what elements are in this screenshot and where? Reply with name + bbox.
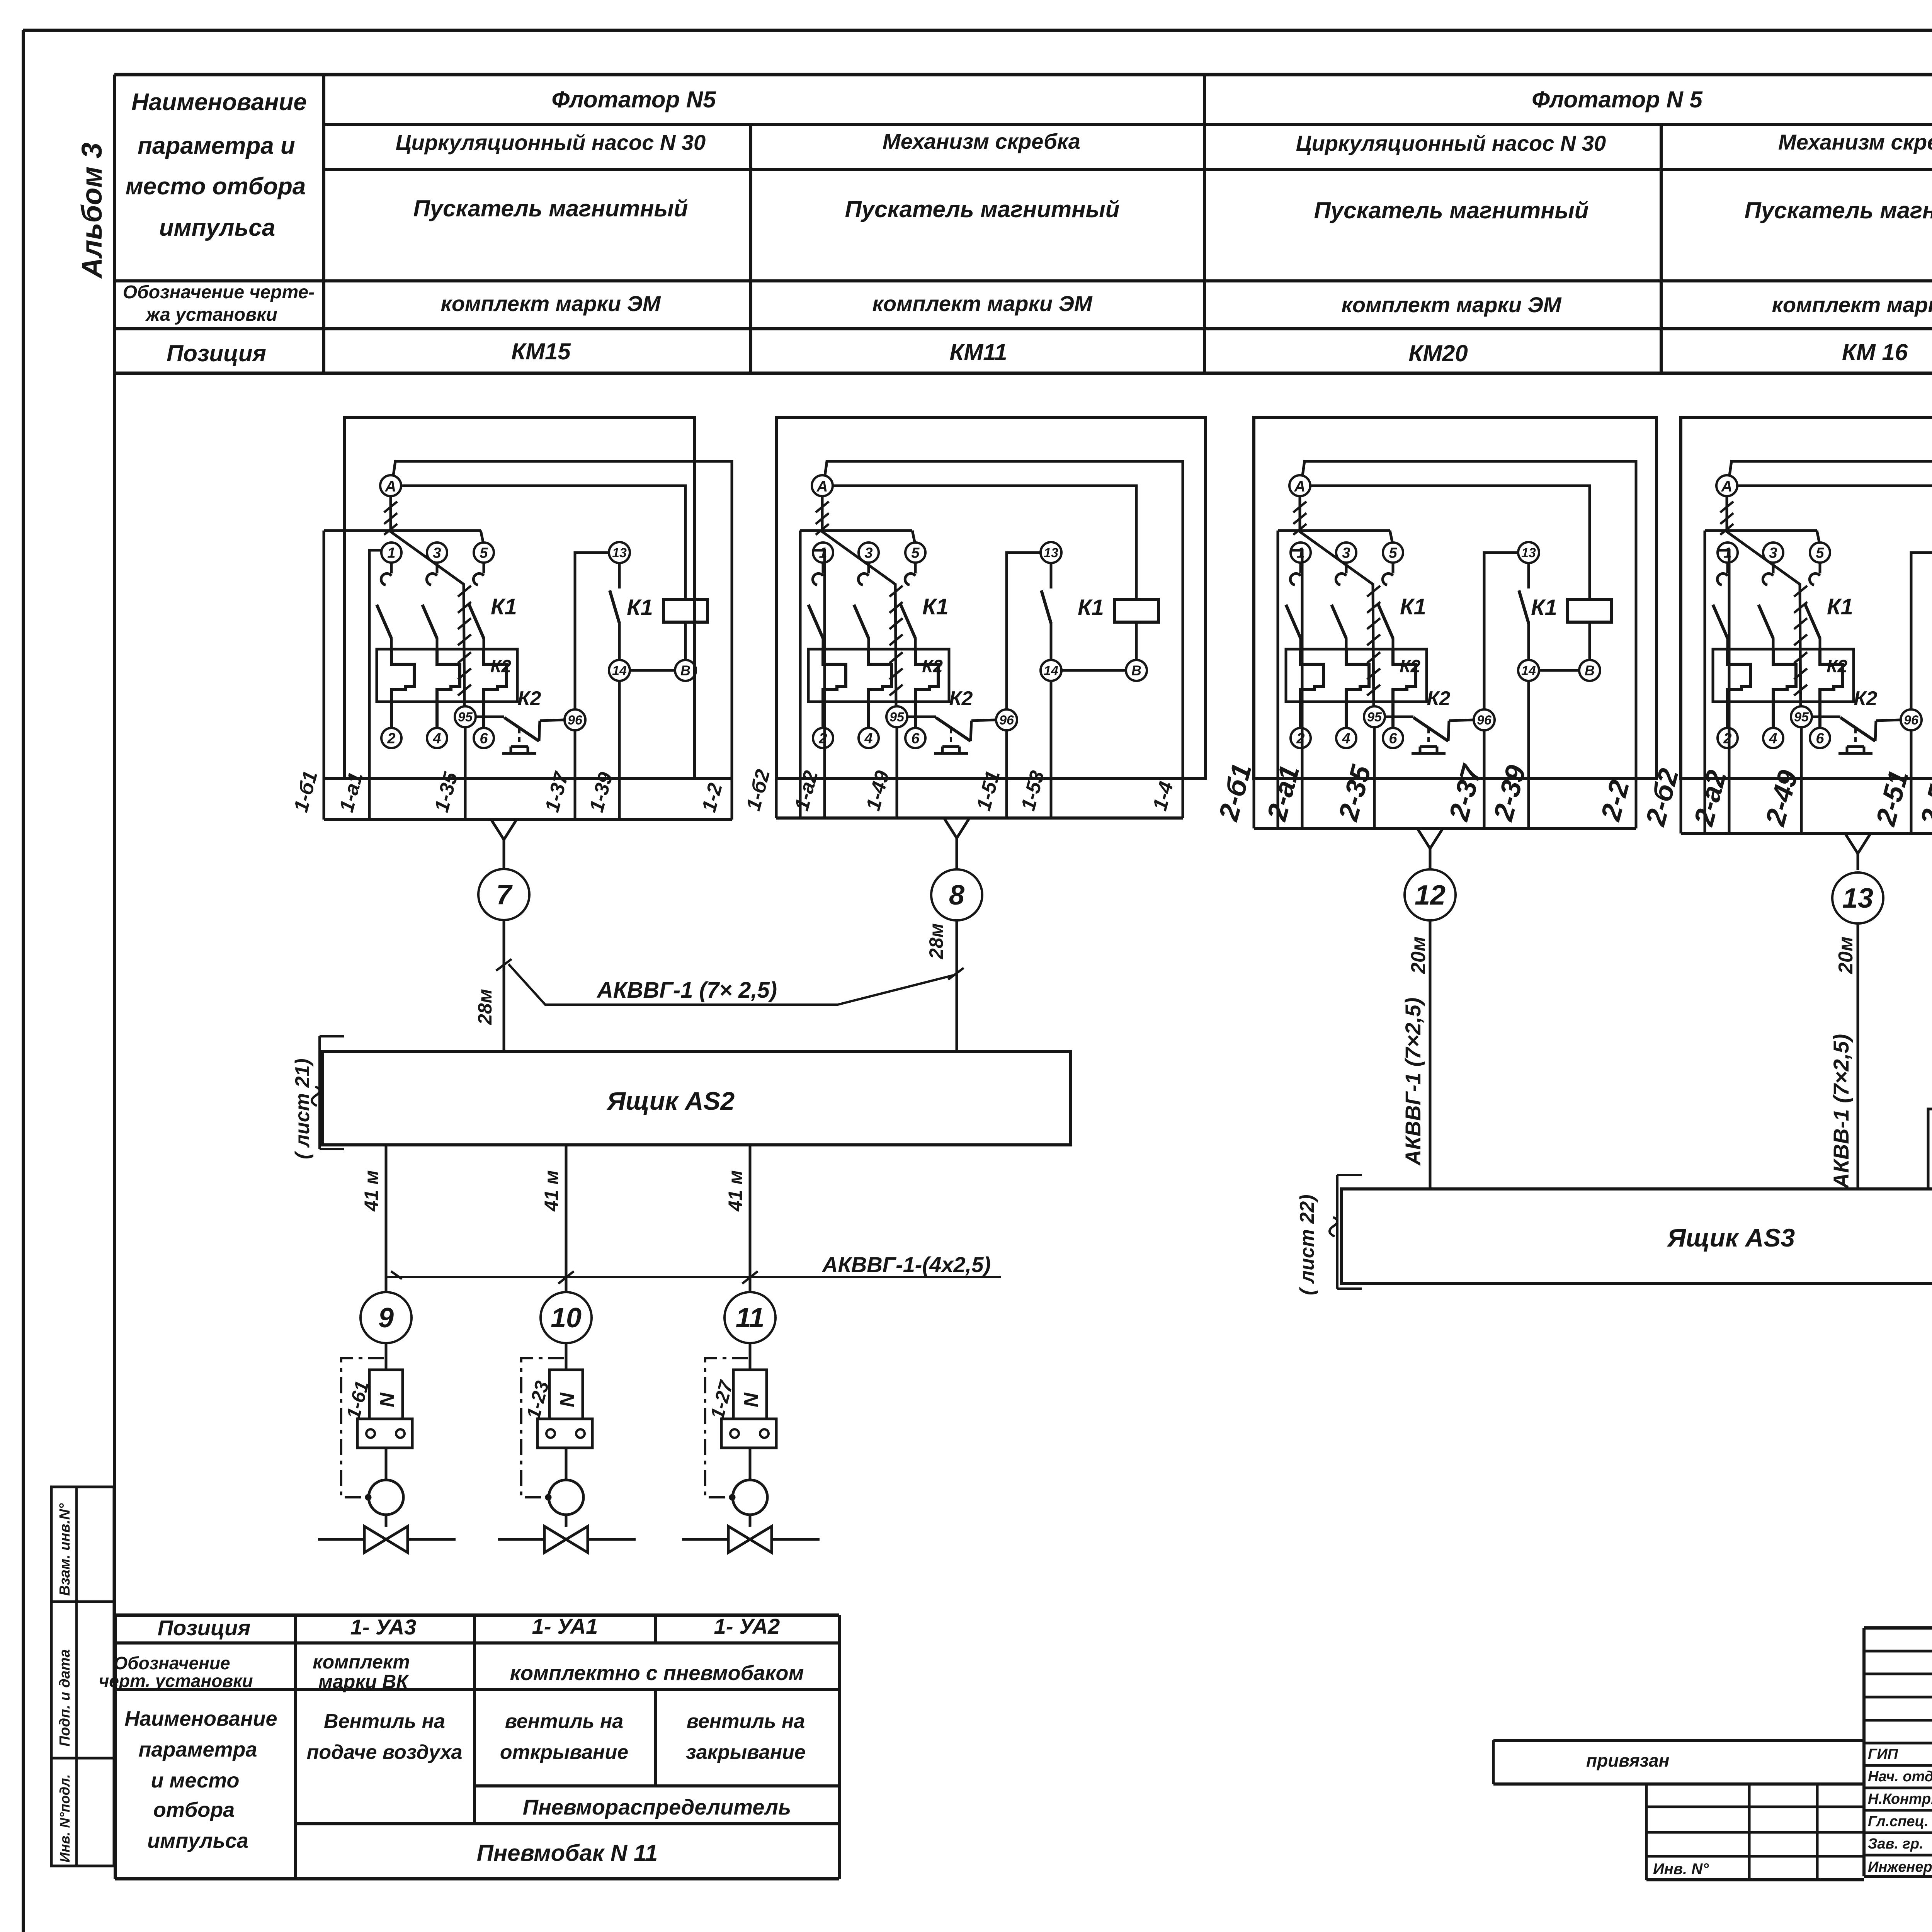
pole terminal circle 5 (1810, 543, 1830, 563)
svg-text:Пускатель магнитный: Пускатель магнитный (1314, 197, 1589, 223)
svg-text:Инв. N°: Инв. N° (1653, 1861, 1709, 1878)
title block grid (1864, 1626, 1932, 1630)
svg-text:1-б1: 1-б1 (290, 769, 322, 815)
cable circle 7 (478, 869, 529, 920)
svg-text:Гл.спец.: Гл.спец. (1868, 1813, 1929, 1830)
pole bottom terminal circle 2 (1718, 728, 1738, 748)
terminal 95 circle (886, 706, 907, 727)
strip left edge (1704, 531, 1706, 833)
pole stub and fixed contact hook (1819, 563, 1821, 573)
terminal A circle (1716, 475, 1737, 496)
wire 13 to 96 and strip (1007, 553, 1041, 709)
svg-text:95: 95 (1794, 710, 1809, 724)
svg-text:параметра и: параметра и (138, 133, 295, 159)
svg-text:4: 4 (864, 730, 872, 747)
cable circle 8 (931, 869, 982, 920)
box AS3 (1342, 1189, 1932, 1284)
valve symbol (364, 1526, 386, 1553)
terminal 96 circle (1901, 709, 1922, 730)
pole terminal circle 5 (905, 543, 925, 563)
pole stub and fixed contact hook (914, 563, 917, 573)
svg-text:1- УА2: 1- УА2 (714, 1614, 780, 1638)
K2 NC contact (476, 716, 504, 718)
terminal 14 circle (1041, 660, 1061, 681)
actuator head circle (369, 1480, 403, 1515)
svg-text:12: 12 (1415, 880, 1446, 911)
svg-text:К1: К1 (922, 594, 949, 619)
svg-text:2: 2 (818, 730, 827, 747)
pole terminal circle 1 (1718, 543, 1738, 563)
K2 NC contact (1385, 716, 1413, 718)
svg-text:подаче воздуха: подаче воздуха (307, 1741, 463, 1764)
small grid below privyazan (1646, 1806, 1864, 1808)
wire 14 to B (630, 669, 675, 672)
contactor blade K1 (1759, 605, 1773, 638)
pole bottom terminal circle 4 (427, 728, 447, 748)
terminal box (721, 1419, 776, 1448)
contactor blade K1 (901, 605, 915, 638)
svg-text:96: 96 (999, 713, 1014, 728)
strip left edge (1277, 531, 1279, 828)
terminal 13 circle (609, 542, 630, 563)
thermal relay K2 box (377, 649, 517, 702)
svg-text:1: 1 (387, 545, 395, 561)
svg-text:импульса: импульса (159, 214, 275, 241)
pole bottom terminal circle 4 (859, 728, 879, 748)
terminal B circle (675, 660, 696, 681)
wire a from terminal 1 (1291, 550, 1302, 828)
svg-text:28м: 28м (474, 989, 496, 1025)
sheet 22 reference bracket (1336, 1175, 1338, 1289)
wire coil to B (1588, 622, 1591, 660)
svg-text:5: 5 (1816, 545, 1824, 561)
thermal element (915, 649, 938, 728)
svg-text:комплектно с пневмобаком: комплектно с пневмобаком (510, 1662, 804, 1685)
svg-text:3: 3 (1342, 545, 1350, 561)
svg-text:КМ20: КМ20 (1408, 340, 1468, 366)
svg-text:Пневмобак N 11: Пневмобак N 11 (477, 1840, 658, 1866)
svg-text:АКВВ-1 (7×2,5): АКВВ-1 (7×2,5) (1829, 1034, 1853, 1189)
cable circle 13 (1832, 872, 1883, 923)
svg-text:В: В (680, 663, 690, 679)
pole terminal circle 3 (427, 543, 447, 563)
pole bottom terminal circle 4 (1763, 728, 1783, 748)
terminal 95 circle (1791, 706, 1812, 727)
starter block outer box at x=2009 (776, 417, 1206, 779)
manual reset button symbol (1854, 729, 1857, 747)
contactor blade K1 (1332, 605, 1346, 638)
wire actuator to valve (749, 1515, 752, 1527)
svg-text:5: 5 (911, 545, 920, 561)
strip top extension (324, 777, 345, 780)
pole stub and fixed contact hook (1726, 563, 1729, 573)
wire 95 to strip (896, 727, 898, 818)
svg-text:Инженер: Инженер (1868, 1859, 1932, 1875)
svg-text:параметра: параметра (138, 1738, 257, 1761)
svg-text:К2: К2 (949, 687, 973, 710)
terminal box (537, 1419, 592, 1448)
svg-text:2-49: 2-49 (1760, 767, 1804, 830)
svg-text:2-б2: 2-б2 (1640, 765, 1685, 830)
svg-text:место отбора: место отбора (126, 173, 306, 200)
supply wire from A to strip (825, 461, 1183, 818)
svg-text:отбора: отбора (153, 1798, 235, 1821)
pole terminal circle 5 (474, 543, 494, 563)
svg-text:2: 2 (1723, 730, 1731, 747)
phase bus wire (1278, 529, 1390, 532)
svg-text:41 м: 41 м (541, 1170, 562, 1212)
cable circle 10 (541, 1292, 592, 1343)
svg-text:К1: К1 (1400, 594, 1426, 619)
hatched cable from A to 95 (391, 496, 464, 706)
actuator head circle (733, 1480, 767, 1515)
aux contact 13-14 (618, 563, 621, 588)
wire 13 to 96 and strip (1911, 553, 1932, 709)
svg-text:Наименование: Наименование (124, 1707, 277, 1730)
svg-text:и место: и место (151, 1769, 240, 1792)
svg-text:5: 5 (1389, 545, 1397, 561)
contactor blade K1 (808, 605, 823, 638)
svg-text:Флотатор N 5: Флотатор N 5 (1532, 87, 1703, 112)
svg-text:Пускатель магнитный: Пускатель магнитный (413, 196, 688, 221)
pole stub and fixed contact hook (822, 563, 825, 573)
svg-text:вентиль на: вентиль на (687, 1710, 805, 1733)
dash-dot feedback line (521, 1358, 564, 1497)
thermal element (437, 649, 460, 728)
pole terminal circle 5 (1383, 543, 1403, 563)
cable converge V (944, 818, 969, 838)
thermal relay K2 box (1286, 649, 1427, 702)
svg-text:6: 6 (480, 730, 488, 747)
hatched cable from A to 95 (822, 496, 896, 706)
terminal 13 circle (1518, 542, 1539, 563)
wire 14 to B (1061, 669, 1126, 672)
terminal B circle (1579, 660, 1600, 681)
svg-text:Пускатель магнитный: Пускатель магнитный (1745, 197, 1932, 223)
svg-text:ГИП: ГИП (1868, 1746, 1898, 1762)
pole terminal circle 3 (859, 543, 879, 563)
supply wire from A to strip (393, 461, 732, 820)
svg-text:К1: К1 (1827, 594, 1853, 619)
phase bus wire (800, 529, 912, 532)
wire 14 to B (1539, 669, 1579, 672)
svg-text:Н.Контр.: Н.Контр. (1868, 1791, 1932, 1807)
svg-text:К2: К2 (1427, 687, 1451, 710)
svg-text:А: А (816, 478, 828, 495)
svg-text:закрывание: закрывание (686, 1741, 806, 1764)
svg-text:13: 13 (1521, 546, 1536, 560)
starter block outer box at x=892 (345, 417, 695, 779)
coil K1 (1568, 599, 1612, 622)
pole bottom terminal circle 6 (1383, 728, 1403, 748)
svg-text:Флотатор N5: Флотатор N5 (551, 87, 716, 112)
left margin stamp vzam (51, 1487, 114, 1602)
terminal 14 circle (1518, 660, 1539, 681)
svg-text:11: 11 (736, 1303, 765, 1333)
svg-text:96: 96 (568, 713, 583, 728)
ticks on collector (558, 1271, 574, 1284)
manual reset button symbol (950, 729, 952, 747)
pole stub and fixed contact hook (390, 563, 393, 573)
terminal 95 circle (1364, 706, 1385, 727)
thermal element (1820, 649, 1843, 728)
pole terminal circle 1 (813, 543, 833, 563)
svg-text:АКВВГ-1 (7×2,5): АКВВГ-1 (7×2,5) (1401, 998, 1425, 1166)
svg-text:2: 2 (387, 730, 395, 747)
svg-text:открывание: открывание (500, 1741, 628, 1764)
solenoid body (733, 1370, 767, 1419)
dash-dot feedback line (341, 1358, 384, 1497)
svg-text:4: 4 (1769, 730, 1777, 747)
wire to actuator head (749, 1448, 752, 1480)
svg-text:Вентиль на: Вентиль на (324, 1710, 445, 1733)
coil K1 (663, 599, 707, 622)
strip left edge (799, 531, 802, 818)
svg-text:3: 3 (864, 545, 872, 561)
svg-text:Циркуляционный насос N 30: Циркуляционный насос N 30 (396, 130, 706, 155)
drop wire from 8 to box AS2 (956, 920, 958, 1051)
pole terminal circle 3 (1763, 543, 1783, 563)
svg-text:Циркуляционный насос N 30: Циркуляционный насос N 30 (1296, 131, 1606, 155)
svg-text:Позиция: Позиция (158, 1616, 251, 1640)
svg-text:20м: 20м (1407, 937, 1430, 974)
svg-text:96: 96 (1477, 713, 1492, 728)
svg-text:2-а1: 2-а1 (1261, 762, 1306, 825)
K2 NC contact (907, 716, 936, 718)
svg-text:К2: К2 (1400, 656, 1420, 676)
coil feed wire (833, 486, 1136, 599)
aux contact 13-14 (1050, 563, 1053, 588)
privyazan row (1493, 1739, 1864, 1742)
K2 NC contact (1812, 716, 1840, 718)
wire to solenoid (565, 1343, 568, 1370)
wire 13 to 96 and strip (575, 553, 609, 709)
coil K1 (1114, 599, 1158, 622)
thermal element (823, 649, 846, 728)
hatched cable from A to 95 (1727, 496, 1801, 706)
wire 95 to strip (1373, 727, 1376, 828)
wire to actuator head (565, 1448, 568, 1480)
valve symbol (544, 1526, 566, 1553)
svg-text:2-37: 2-37 (1443, 761, 1488, 825)
svg-text:Позиция: Позиция (167, 340, 266, 366)
strip bottom line (1681, 832, 1932, 835)
svg-text:6: 6 (911, 730, 920, 747)
collector cable line below AS2 (386, 1276, 1001, 1278)
cable converge V (491, 820, 517, 840)
wire 13 to 96 and strip (1484, 553, 1518, 709)
svg-text:Альбом 3: Альбом 3 (76, 143, 108, 279)
wire a from terminal 1 (369, 550, 381, 820)
svg-text:3: 3 (1769, 545, 1777, 561)
thermal element (391, 649, 414, 728)
thermal element (869, 649, 891, 728)
svg-text:2: 2 (1296, 730, 1304, 747)
svg-text:N: N (556, 1392, 578, 1407)
svg-text:комплект: комплект (313, 1651, 410, 1673)
svg-text:КМ11: КМ11 (949, 339, 1007, 365)
svg-text:14: 14 (1521, 663, 1536, 678)
svg-text:К1: К1 (1078, 595, 1104, 620)
svg-text:95: 95 (889, 710, 905, 724)
svg-text:7: 7 (496, 879, 513, 910)
pole stub and fixed contact hook (1392, 563, 1395, 573)
cable circle 12 (1405, 869, 1456, 920)
svg-text:К2: К2 (490, 656, 511, 676)
phase bus wire (324, 529, 481, 532)
svg-text:1- УА3: 1- УА3 (350, 1615, 417, 1639)
svg-text:5: 5 (480, 545, 488, 561)
pole bottom terminal circle 6 (905, 728, 925, 748)
thermal element (1346, 649, 1369, 728)
svg-text:Взам. инв.N°: Взам. инв.N° (57, 1503, 73, 1596)
contactor blade K1 (377, 605, 391, 638)
svg-text:Ящик АS2: Ящик АS2 (606, 1087, 735, 1115)
sheet frame (23, 29, 1932, 32)
svg-text:К2: К2 (922, 656, 943, 676)
aux contact 13-14 (1527, 563, 1530, 588)
contactor blade K1 (469, 605, 484, 638)
wire a from terminal 1 (1718, 550, 1729, 833)
svg-text:КМ 16: КМ 16 (1842, 339, 1908, 365)
top table grid (114, 73, 1932, 77)
drop wire from 12 to box AS3 (1429, 920, 1432, 1189)
dash-dot feedback line (705, 1358, 748, 1497)
left content boundary line (113, 75, 116, 1615)
supply wire from A to strip (1303, 461, 1636, 828)
cable callout bracket AKVVG-1 7x2.5 (509, 964, 953, 1005)
wire 14 to strip (1050, 681, 1053, 818)
svg-text:1-б2: 1-б2 (742, 767, 775, 813)
terminal 95 circle (455, 706, 476, 727)
svg-text:марки ВК: марки ВК (318, 1671, 409, 1692)
pole bottom terminal circle 6 (1810, 728, 1830, 748)
wire actuator to valve (565, 1515, 568, 1527)
svg-text:95: 95 (458, 710, 473, 724)
svg-text:9: 9 (378, 1303, 394, 1333)
cable converge V (1417, 828, 1443, 849)
wire coil to B (1135, 622, 1138, 660)
pole stub and fixed contact hook (1299, 563, 1302, 573)
svg-text:( лист 22): ( лист 22) (1296, 1194, 1318, 1295)
svg-text:В: В (1131, 663, 1141, 679)
svg-text:А: А (1294, 478, 1306, 495)
wire to solenoid (749, 1343, 752, 1370)
svg-text:К1: К1 (627, 595, 653, 620)
svg-text:96: 96 (1904, 713, 1919, 728)
pole stub and fixed contact hook (1345, 563, 1348, 573)
pole stub and fixed contact hook (483, 563, 485, 573)
thermal relay K2 box (808, 649, 949, 702)
wire 14 to strip (618, 681, 621, 820)
cable converge V (1845, 833, 1871, 854)
terminal 96 circle (1474, 709, 1495, 730)
hatched cable from A to 95 (1300, 496, 1374, 706)
svg-text:импульса: импульса (147, 1829, 248, 1852)
left margin stamp inv (51, 1758, 114, 1866)
starter block outer box at x=4350 (1681, 417, 1932, 779)
svg-text:А: А (1721, 478, 1733, 495)
svg-text:2-б1: 2-б1 (1213, 760, 1258, 825)
wire 95 to strip (464, 727, 467, 820)
pole terminal circle 3 (1336, 543, 1356, 563)
manual reset button symbol (518, 729, 520, 747)
svg-text:1: 1 (819, 545, 827, 561)
pole stub and fixed contact hook (867, 563, 870, 573)
svg-text:1-49: 1-49 (862, 768, 894, 813)
svg-text:41 м: 41 м (724, 1170, 746, 1212)
svg-text:N: N (376, 1392, 398, 1407)
lower table grid (115, 1614, 839, 1617)
sheet 21 reference bracket (318, 1036, 321, 1149)
terminal 96 circle (565, 709, 585, 730)
svg-text:2-53: 2-53 (1915, 767, 1932, 830)
svg-text:1-2: 1-2 (698, 781, 727, 815)
terminal A circle (812, 475, 833, 496)
pole bottom terminal circle 2 (381, 728, 401, 748)
svg-text:КМ15: КМ15 (511, 338, 571, 364)
pole bottom terminal circle 2 (1291, 728, 1311, 748)
cable tick on drop 7 (496, 959, 512, 971)
cable from 14 to AS3 (1928, 789, 1932, 1189)
coil feed wire (401, 486, 685, 599)
svg-text:АКВВГ-1-(4х2,5): АКВВГ-1-(4х2,5) (821, 1252, 991, 1277)
cable circle 9 (361, 1292, 412, 1343)
solenoid body (369, 1370, 403, 1419)
pole bottom terminal circle 4 (1336, 728, 1356, 748)
terminal 14 circle (609, 660, 630, 681)
contactor blade K1 (1805, 605, 1820, 638)
svg-text:привязан: привязан (1586, 1750, 1669, 1770)
svg-text:черт. установки: черт. установки (99, 1671, 253, 1691)
svg-text:13: 13 (612, 546, 627, 560)
svg-text:2-2: 2-2 (1595, 777, 1636, 825)
thermal relay K2 box (1713, 649, 1854, 702)
svg-text:комплект марки ЭМ: комплект марки ЭМ (440, 291, 661, 316)
svg-text:1-а2: 1-а2 (791, 768, 823, 813)
svg-text:Механизм скребка: Механизм скребка (1778, 130, 1932, 154)
svg-text:1: 1 (1723, 545, 1731, 561)
svg-text:К1: К1 (491, 594, 517, 619)
terminal A circle (1289, 475, 1310, 496)
svg-text:2-а2: 2-а2 (1688, 767, 1733, 830)
contactor blade K1 (1713, 605, 1728, 638)
svg-text:К2: К2 (1854, 687, 1878, 710)
contactor blade K1 (1378, 605, 1393, 638)
starter block outer box at x=3245 (1254, 417, 1656, 779)
svg-text:14: 14 (612, 663, 627, 678)
svg-text:1-39: 1-39 (585, 770, 617, 815)
svg-text:АКВВГ-1 (7× 2,5): АКВВГ-1 (7× 2,5) (596, 978, 777, 1003)
svg-text:41 м: 41 м (361, 1170, 382, 1212)
wire 95 to strip (1800, 727, 1803, 833)
thermal element (1393, 649, 1416, 728)
svg-text:1-4: 1-4 (1149, 779, 1178, 813)
wire b along box left edge (775, 779, 778, 818)
wire actuator to valve (385, 1515, 388, 1527)
svg-text:Подп. и дата: Подп. и дата (57, 1649, 73, 1747)
svg-text:Зав. гр.: Зав. гр. (1868, 1836, 1923, 1852)
pole terminal circle 1 (1291, 543, 1311, 563)
svg-text:Ящик АS3: Ящик АS3 (1667, 1223, 1795, 1252)
supply wire from A to strip (1730, 461, 1932, 833)
contactor blade K1 (422, 605, 437, 638)
svg-text:1-53: 1-53 (1017, 768, 1049, 813)
manual reset button symbol (1427, 729, 1430, 747)
svg-text:1- УА1: 1- УА1 (532, 1614, 598, 1638)
strip bottom line (776, 816, 1183, 820)
svg-text:комплект марки ЭМ: комплект марки ЭМ (1341, 293, 1561, 317)
